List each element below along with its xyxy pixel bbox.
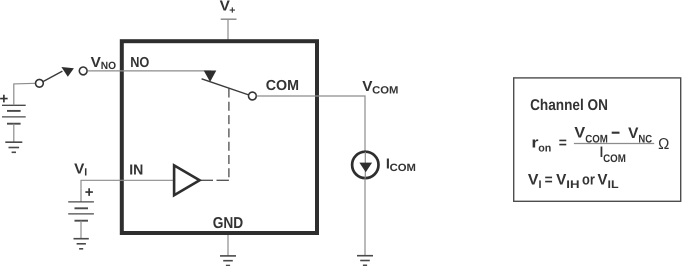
wire VI to IN pin (81, 180, 173, 202)
current source arrow (359, 163, 372, 173)
dashed control line vertical (228, 89, 230, 181)
battery B2 (VI source) plates (68, 202, 94, 221)
internal switch blade (202, 79, 249, 95)
switch S1 blade (43, 71, 62, 81)
svg-text:NO: NO (130, 55, 149, 71)
svg-text:+: + (85, 184, 94, 201)
ground below B1 (5, 142, 22, 152)
svg-text:on: on (538, 142, 551, 154)
IC box U1 (122, 41, 317, 233)
internal switch COM contact (249, 92, 257, 100)
current source wire through (364, 152, 366, 178)
svg-text:IL: IL (608, 179, 619, 191)
svg-text:=: = (545, 172, 553, 189)
svg-text:Ω: Ω (658, 136, 669, 153)
ground below current source (357, 256, 373, 266)
supply terminal V+ bar (221, 18, 237, 20)
svg-text:or: or (582, 172, 595, 189)
battery B1 (VNO source) plates (2, 105, 26, 123)
internal switch arrowhead (204, 71, 217, 82)
svg-text:GND: GND (213, 215, 244, 232)
switch S1 pole contact (36, 79, 44, 87)
annotation box (514, 78, 681, 201)
svg-text:NO: NO (101, 60, 116, 72)
formula fraction bar (574, 143, 654, 145)
svg-text:COM: COM (603, 153, 626, 165)
switch S1 arrowhead (61, 67, 74, 77)
ground below GND pin (220, 256, 236, 266)
svg-text:+: + (229, 5, 235, 17)
wire VNO to NO pin (88, 70, 211, 72)
ground below B2 (74, 239, 89, 249)
svg-text:I: I (539, 179, 542, 191)
switch S1 throw contact (79, 67, 87, 75)
dashed control line horizontal (201, 179, 213, 181)
svg-text:+: + (0, 90, 9, 107)
svg-text:IN: IN (129, 162, 143, 178)
wire V+ to box top (227, 19, 229, 41)
wire battery B2 to ground (80, 221, 82, 239)
wire battery B1 to ground (13, 124, 15, 142)
svg-text:I: I (84, 167, 87, 179)
svg-text:IH: IH (566, 179, 579, 191)
svg-text:Channel ON: Channel ON (530, 97, 608, 114)
svg-text:=: = (559, 135, 567, 152)
wire GND pin to ground (227, 235, 229, 256)
svg-text:COM: COM (390, 162, 417, 174)
wire COM to VCOM node (257, 96, 365, 151)
svg-text:COM: COM (266, 78, 299, 94)
svg-text:V: V (74, 162, 85, 178)
current source ICOM circle (352, 152, 378, 178)
svg-text:V: V (91, 55, 102, 71)
svg-text:COM: COM (372, 85, 399, 97)
buffer driver A1 (174, 165, 200, 195)
wire battery B1 to switch pole (14, 83, 36, 105)
wire current source to ground (364, 178, 366, 255)
